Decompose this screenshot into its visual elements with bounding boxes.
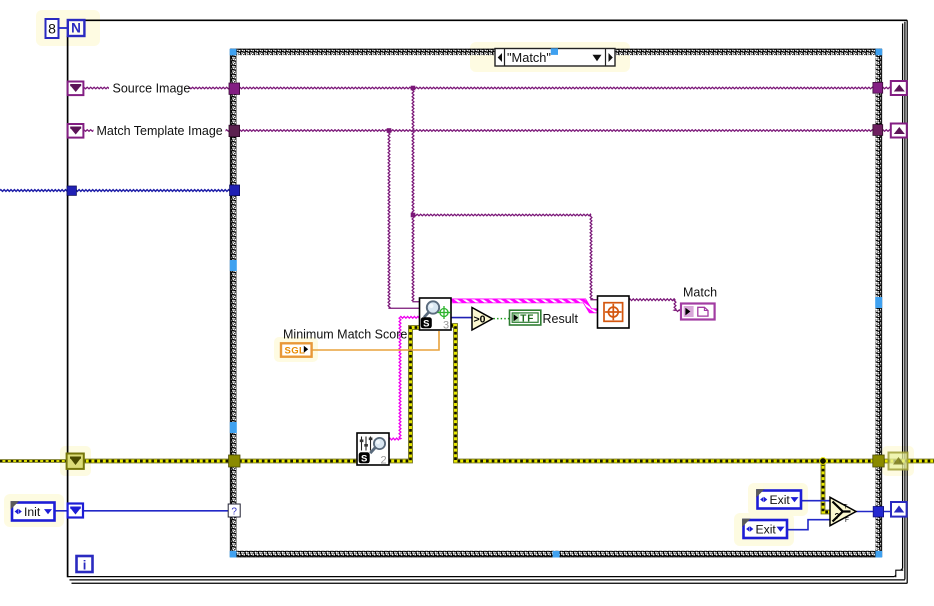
tunnel unwired left a <box>230 260 237 271</box>
svg-text:>0: >0 <box>474 314 486 326</box>
tunnel unwired left b <box>230 422 237 433</box>
wire source image inside case <box>239 87 874 89</box>
tunnel bottom middle <box>553 551 560 558</box>
loop tunnel session <box>67 186 76 195</box>
wire match template inside case <box>239 130 874 132</box>
wire 8 to N <box>59 27 69 29</box>
svg-text:Exit: Exit <box>770 493 791 507</box>
shift register match template left <box>68 124 84 138</box>
tunnel error right <box>873 455 884 467</box>
tunnel match template right <box>873 125 883 136</box>
wire init enum <box>54 510 229 512</box>
wire overlay to match indicator <box>629 299 675 301</box>
svg-text:T: T <box>844 504 848 511</box>
IMAQ Match Pattern VI <box>420 298 452 330</box>
wire session refnum <box>0 190 231 192</box>
tunnel unwired right <box>875 297 882 308</box>
enum constant Exit 1 <box>758 491 802 509</box>
loop iteration terminal i <box>77 556 93 572</box>
tunnel bottom-right corner <box>875 551 882 558</box>
tunnel next state right <box>873 507 883 517</box>
IMAQ Overlay VI <box>598 296 630 328</box>
svg-text:2: 2 <box>380 455 386 467</box>
error wire outside left <box>0 459 67 463</box>
error wire match vi to right tunnel <box>451 326 875 462</box>
tunnel session left <box>230 185 240 196</box>
tunnel source image left <box>229 83 240 94</box>
junction source-overlay <box>411 213 416 218</box>
error wire case to setup vi <box>239 459 358 464</box>
error wire branch to select <box>823 463 830 512</box>
svg-text:S: S <box>361 453 367 464</box>
case selector terminal ? <box>228 504 240 517</box>
tunnel top (selector) <box>551 48 558 55</box>
wire minimum match score <box>311 331 439 350</box>
shift register state left <box>68 504 83 518</box>
svg-text:Match Template Image: Match Template Image <box>97 124 223 138</box>
svg-text:"Match": "Match" <box>507 50 551 65</box>
svg-text:?: ? <box>231 507 237 518</box>
wire setup to match (template data) <box>389 438 400 440</box>
wire source image branch down <box>412 89 419 302</box>
shift register error right <box>889 453 908 470</box>
shift register state right <box>891 502 907 517</box>
enum constant Init <box>12 503 55 521</box>
svg-text:Match: Match <box>683 286 717 300</box>
error wire setup to match vi <box>389 328 420 462</box>
wire source image left <box>83 87 231 89</box>
svg-text:Source Image: Source Image <box>113 82 191 96</box>
svg-text:8: 8 <box>48 21 56 37</box>
tunnel top-right corner <box>875 49 882 56</box>
wire match template branch down <box>388 132 419 309</box>
shift register error left <box>67 454 84 469</box>
svg-text:N: N <box>71 21 81 36</box>
svg-text:Init: Init <box>24 505 41 519</box>
tunnel source image right <box>873 82 883 93</box>
tunnel error left <box>229 455 240 467</box>
wire exit1 to select <box>801 500 831 502</box>
enum constant Exit 2 <box>744 520 788 538</box>
wire match template stub right <box>882 130 892 132</box>
label background match template <box>94 123 226 139</box>
tunnel match template left <box>229 125 240 136</box>
wire match template left <box>83 130 231 132</box>
shift register source image right <box>891 81 907 95</box>
greater than 0 node <box>472 308 493 331</box>
svg-text:i: i <box>83 558 87 573</box>
loop N terminal <box>68 20 85 36</box>
wire match score result <box>451 317 472 319</box>
boolean indicator Result <box>510 310 541 325</box>
wire exit2 to select <box>787 520 831 530</box>
loop count constant 8 <box>46 19 59 38</box>
svg-text:SGL: SGL <box>285 346 306 357</box>
shift register match template right <box>891 124 907 138</box>
select node <box>830 497 856 525</box>
image indicator Match <box>681 304 715 320</box>
wire source image branch to overlay <box>413 214 591 216</box>
error wire left to case <box>83 459 231 464</box>
svg-text:3: 3 <box>443 320 449 332</box>
svg-text:Exit: Exit <box>756 523 777 537</box>
svg-text:?: ? <box>835 512 840 521</box>
error junction <box>820 458 827 465</box>
svg-text:TF: TF <box>520 314 534 325</box>
case selector label "Match" <box>495 49 615 67</box>
case structure border <box>230 49 882 557</box>
tunnel top-left corner <box>230 49 237 56</box>
svg-text:F: F <box>845 517 849 524</box>
numeric control Minimum Match Score <box>281 343 312 356</box>
svg-text:Minimum Match Score: Minimum Match Score <box>283 328 407 342</box>
label background source image <box>109 80 189 96</box>
junction source-down <box>411 86 416 91</box>
wire boolean to TF <box>494 318 511 320</box>
wire image out (pink) <box>451 301 598 311</box>
tunnel bottom-left corner <box>230 551 237 558</box>
junction template-down <box>387 128 392 133</box>
IMAQ Setup Match Pattern VI <box>357 433 389 465</box>
svg-text:Result: Result <box>543 312 579 326</box>
error wire tunnel to shift register <box>882 459 934 464</box>
wire source image stub right <box>882 87 892 89</box>
svg-text:S: S <box>423 318 429 329</box>
shift register source image left <box>68 82 84 96</box>
wire select out <box>856 511 892 513</box>
